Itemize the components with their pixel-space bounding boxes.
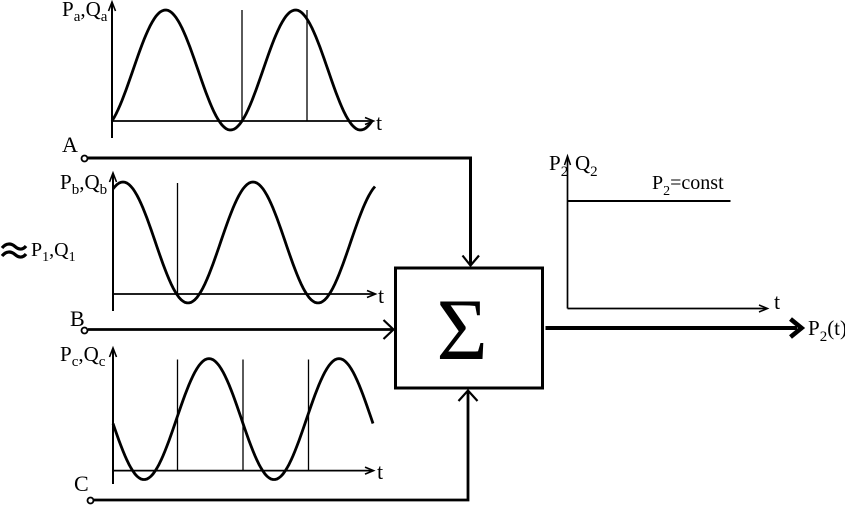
graph B x-axis <box>113 291 376 298</box>
svg-text:t: t <box>377 459 383 484</box>
wire C to summator <box>94 391 478 501</box>
wire summator output <box>546 319 802 337</box>
graph C y-axis <box>110 348 117 484</box>
label P2(t) <box>808 316 845 345</box>
graph C x-axis <box>113 467 374 474</box>
label P1,Q1 <box>31 239 76 265</box>
label Q2 right graph <box>575 151 598 180</box>
approx symbol <box>2 244 26 257</box>
label P2=const <box>652 172 724 199</box>
graph A t label <box>376 110 382 135</box>
svg-text:t: t <box>378 283 384 308</box>
node A label <box>62 132 78 157</box>
label Pa,Qa <box>62 0 108 25</box>
svg-text:C: C <box>74 471 89 496</box>
svg-text:t: t <box>376 110 382 135</box>
label Pc,Qc <box>60 342 106 370</box>
graph C marker line 1 <box>177 360 179 471</box>
svg-text:t: t <box>774 289 780 314</box>
node B label <box>70 306 85 331</box>
label P2 right graph <box>549 151 568 180</box>
graph A marker line 1 <box>241 10 243 121</box>
const line <box>568 200 731 202</box>
graph P2 x-axis <box>568 305 768 312</box>
node B terminal <box>82 328 88 334</box>
wire B to summator <box>88 320 394 339</box>
summator box <box>396 268 543 388</box>
summator sigma symbol <box>437 282 488 379</box>
wave Pa <box>112 10 372 130</box>
graph B t label <box>378 283 384 308</box>
svg-text:Σ: Σ <box>437 282 488 379</box>
svg-text:A: A <box>62 132 78 157</box>
node C label <box>74 471 89 496</box>
node C terminal <box>88 498 94 504</box>
wave Pb <box>113 182 375 303</box>
graph C marker line 3 <box>308 360 310 471</box>
node A terminal <box>82 156 88 162</box>
graph A y-axis <box>109 2 116 138</box>
graph A marker line 2 <box>306 10 308 121</box>
graph B marker line <box>177 183 179 294</box>
label Pb,Qb <box>60 170 107 198</box>
wave Pc <box>113 359 373 480</box>
graph P2 t label <box>774 289 780 314</box>
graph B y-axis <box>110 173 117 311</box>
graph A x-axis <box>112 118 374 125</box>
wire A to summator <box>88 158 479 266</box>
graph C t label <box>377 459 383 484</box>
graph C marker line 2 <box>242 360 244 471</box>
graph P2 y-axis <box>565 156 571 309</box>
